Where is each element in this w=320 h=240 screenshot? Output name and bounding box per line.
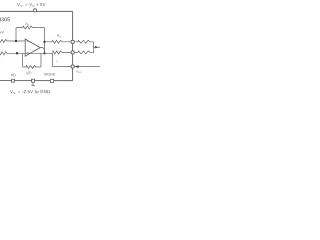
wire RG tap from lower input line (22, 53, 24, 67)
terminal VS+ circle on top rail (33, 9, 36, 12)
wire feedback vertical (43, 28, 45, 54)
wire right bracket (92, 42, 94, 54)
svg-text:PD: PD (11, 73, 16, 77)
node dot feedback-output junction (43, 52, 45, 54)
ground stub below mid pin (31, 82, 34, 85)
resistor RG (23, 65, 41, 68)
resistor RB external row2 (74, 51, 93, 54)
resistor RO2 row2 (53, 51, 72, 54)
pin square MODE (50, 79, 53, 82)
svg-text:R: R (56, 60, 58, 63)
svg-text:VOUT: VOUT (76, 69, 83, 74)
svg-text:MODE: MODE (44, 72, 55, 76)
resistor fragment left edge upper (0, 31, 4, 35)
pin square row1 (71, 40, 74, 43)
svg-text:RO: RO (57, 34, 62, 39)
resistor lower-left fragment (0, 52, 53, 55)
wire top supply rail (0, 10, 73, 12)
wire internal output run to VOUT pin (53, 53, 72, 66)
resistor upper-left fragment (0, 39, 25, 42)
op-amp U1 (25, 39, 40, 56)
wire IC box right edge (72, 11, 74, 80)
op-amp - mark (27, 51, 29, 53)
arrow VOUT pointing left (75, 65, 79, 68)
node dot feedback-row1 junction (43, 41, 45, 43)
node VS+ supply label (17, 2, 46, 8)
pin square row2 (71, 51, 74, 54)
wire VOUT line to edge (74, 66, 101, 68)
svg-text:VS- = -2.5V to GND: VS- = -2.5V to GND (10, 89, 50, 95)
node dot upper input (15, 40, 17, 42)
pin square PD (12, 79, 15, 82)
arrow on output stub (95, 46, 98, 49)
node dot lower input (16, 52, 18, 54)
resistor RF (16, 26, 45, 29)
op-amp + mark (27, 40, 29, 42)
wire stub above VS+ terminal (34, 8, 36, 9)
wire op-amp output to lower rail (40, 48, 44, 54)
wire RG up to lower rail (40, 53, 42, 67)
resistor RO1 row1 (45, 40, 72, 43)
svg-text:H305: H305 (0, 17, 10, 23)
pin square mid (32, 79, 35, 82)
wire IC box bottom edge (0, 80, 73, 82)
op-amp gain mark (33, 50, 35, 51)
svg-text:VS+ = VO + 5V: VS+ = VO + 5V (17, 2, 46, 8)
resistor RA external row1 (74, 40, 93, 43)
wire RF left drop to upper input (15, 28, 17, 41)
pin square VOUT (71, 65, 74, 68)
wire output stub right (93, 46, 100, 48)
